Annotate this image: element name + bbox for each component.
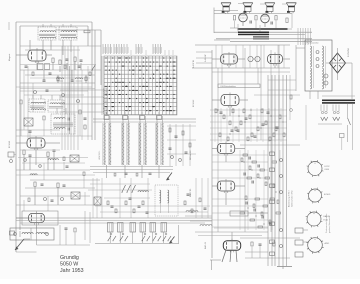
- coil column 1: [104, 123, 106, 165]
- svg-text:1 2 3 4 5 6 7 8 9 10 11 12 13: 1 2 3 4 5 6 7 8 9 10 11 12 13: [104, 88, 106, 114]
- mains switch leg: [347, 104, 349, 118]
- svg-text:2+EL W: 2+EL W: [205, 55, 207, 62]
- mid-left lower parts: [16, 129, 60, 131]
- coil pair top 106.5: [104, 116, 109, 120]
- tuner small parts: [52, 58, 54, 63]
- dashed coil box: [155, 185, 178, 216]
- right verticals to PSU: [297, 28, 299, 45]
- svg-text:ECH 41: ECH 41: [9, 140, 11, 148]
- coil column 7: [156, 123, 158, 165]
- svg-text:Grundig: Grundig: [60, 255, 79, 261]
- bus parts: [270, 152, 275, 155]
- coil pair top 125: [123, 116, 128, 120]
- driver tube V2: [261, 14, 270, 23]
- svg-text:Pw Netzwerke: Pw Netzwerke: [307, 42, 319, 45]
- svg-text:3+ES W: 3+ES W: [193, 60, 195, 68]
- switch diagonals band: [122, 185, 126, 192]
- svg-text:UKW M K L: UKW M K L: [99, 151, 101, 160]
- bridge rectifier: [330, 53, 346, 73]
- coil pair top 142: [140, 116, 145, 120]
- right boxes: [295, 228, 303, 233]
- svg-text:5050 W: 5050 W: [60, 262, 78, 268]
- coil column 3: [122, 123, 124, 165]
- pointer arrow: [170, 237, 175, 244]
- output transformer: [238, 32, 269, 34]
- antenna coil box: [10, 228, 54, 240]
- IF transformer F1: [38, 27, 56, 40]
- trimmer R: [84, 30, 90, 33]
- socket AZ41: [308, 238, 323, 253]
- upper band y178-216: [92, 178, 94, 218]
- left lower extra: [23, 200, 25, 211]
- coil column 4: [128, 123, 130, 165]
- RC rows: [210, 109, 287, 111]
- bottom mid wires: [195, 231, 268, 233]
- right cable bus: [267, 75, 269, 266]
- speaker bus: [238, 3, 243, 5]
- RC columns: [212, 154, 268, 156]
- socket EC92: [308, 162, 322, 176]
- IFT A: [29, 99, 45, 112]
- left edge small parts: [8, 152, 14, 157]
- mid-left bus rows: [20, 82, 95, 84]
- coil column 2: [109, 123, 111, 165]
- switch diag: [92, 65, 96, 71]
- socket ECH41: [309, 189, 322, 202]
- svg-text:EC92: EC92: [325, 166, 331, 168]
- AM tube: [29, 213, 45, 222]
- socket EAF42: [307, 212, 321, 226]
- switch contacts row: [108, 236, 111, 241]
- svg-text:FM-Ratiodetektor: FM-Ratiodetektor: [221, 85, 237, 88]
- bank right components: [169, 124, 171, 166]
- mains transformer: [322, 100, 355, 102]
- svg-text:gesehen, Unteransicht: gesehen, Unteransicht: [328, 216, 331, 233]
- top-left verticals: [29, 40, 31, 50]
- heater string: [320, 105, 322, 112]
- svg-text:2M kan 24: 2M kan 24: [190, 150, 192, 160]
- mains box: [305, 40, 332, 91]
- bus rows: [16, 217, 212, 219]
- X boxes: [70, 155, 79, 162]
- vertical bundle wires: [61, 46, 63, 150]
- driver parts: [233, 16, 235, 21]
- svg-text:Roehrensockel von unten: Roehrensockel von unten: [325, 214, 328, 233]
- speakers: [221, 2, 231, 4]
- feedback verticals: [215, 45, 217, 68]
- left mid extra wires: [20, 149, 60, 151]
- IF transformer F2: [59, 27, 77, 40]
- ratio det label: [218, 84, 260, 88]
- svg-text:ECH 42: ECH 42: [193, 99, 195, 107]
- coil column 6: [145, 123, 147, 165]
- svg-text:R 250/56: R 250/56: [348, 47, 350, 57]
- band switch matrix: [102, 44, 104, 54]
- svg-text:M8 K4 L1 U7 T2 30 81 K6 M3: M8 K4 L1 U7 T2 30 81 K6 M3: [106, 87, 108, 114]
- bottom-left wires: [36, 232, 38, 245]
- bank bottom rails: [90, 165, 173, 167]
- cluster parts: [90, 183, 150, 185]
- bottom mid coils: [186, 211, 198, 212]
- svg-text:EAF 42: EAF 42: [204, 241, 207, 249]
- IFT A2: [48, 100, 64, 112]
- label boxes under tube: [38, 64, 44, 70]
- svg-text:Magnet.: Magnet.: [8, 53, 11, 61]
- oscillator coil bank: [93, 118, 196, 120]
- trimmer circles: [34, 91, 37, 94]
- X box small: [94, 197, 101, 205]
- svg-text:ECH41: ECH41: [324, 194, 331, 196]
- horizontal coil: [138, 191, 148, 192]
- pointer arrow mid: [167, 173, 173, 181]
- center spine: [211, 50, 213, 258]
- mid-left verticals: [23, 70, 25, 130]
- svg-text:Wellenschalter UKW: Wellenschalter UKW: [291, 190, 294, 207]
- trimmer row: [108, 223, 114, 233]
- coil column 5: [139, 123, 141, 165]
- driver tube V1: [239, 13, 248, 22]
- h coils row: [56, 78, 63, 79]
- ground arrow: [15, 239, 24, 250]
- small parts mid-left: [20, 100, 22, 104]
- coil pair top 159: [157, 116, 162, 120]
- svg-text:Abstimmung 20 60 3: Abstimmung 20 60 3: [288, 191, 291, 207]
- IFT B: [51, 114, 75, 134]
- X box filter: [24, 118, 33, 126]
- coil column 8: [162, 123, 164, 165]
- tuner enclosure wires: [16, 21, 92, 23]
- svg-text:Jahr 1953: Jahr 1953: [60, 268, 84, 274]
